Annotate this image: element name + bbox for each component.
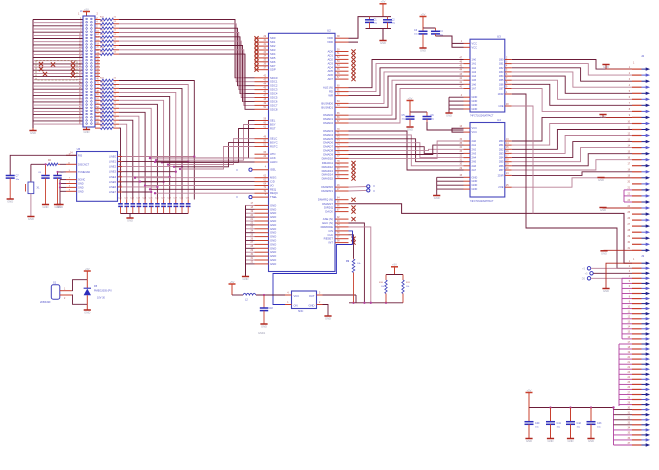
svg-text:=: = xyxy=(373,185,375,189)
connector J3 pin 10 xyxy=(627,306,650,310)
wire bus S2-4 xyxy=(349,147,464,154)
U2 left pin ISEL xyxy=(236,167,277,173)
wire S1 pin2 to diode xyxy=(72,295,88,304)
wire pullup rail xyxy=(349,302,403,304)
wire J1 left pin row 14 xyxy=(33,58,83,61)
svg-text:36: 36 xyxy=(459,139,462,141)
svg-text:22: 22 xyxy=(114,25,117,27)
wire 2DIR to J2 xyxy=(512,172,632,176)
svg-text:22: 22 xyxy=(114,17,117,19)
J3 power fan upper xyxy=(619,344,632,406)
svg-text:10u: 10u xyxy=(392,23,396,25)
wire LINE0 xyxy=(119,155,196,157)
wire control net 5 xyxy=(179,147,255,171)
svg-text:GND: GND xyxy=(472,175,478,179)
svg-text:22: 22 xyxy=(114,117,117,119)
svg-text:1A0: 1A0 xyxy=(472,58,477,62)
svg-text:GND: GND xyxy=(526,439,532,443)
wire bus S2-7 xyxy=(349,141,464,158)
svg-text:10u: 10u xyxy=(577,427,581,429)
svg-text:GND1: GND1 xyxy=(258,331,266,335)
wire R1-3 xyxy=(512,72,632,87)
wire control net 0 xyxy=(149,121,255,160)
connector J2 label xyxy=(633,54,645,65)
svg-text:GND: GND xyxy=(127,219,133,223)
power +5V mid caps xyxy=(407,96,414,112)
resistor RP1-3 xyxy=(95,25,119,29)
svg-text:74FCT162245ATPACT: 74FCT162245ATPACT xyxy=(470,200,494,203)
svg-text:BUSMD1: BUSMD1 xyxy=(321,105,333,109)
ground J2 pin 1 xyxy=(602,65,632,70)
wire SDC1 xyxy=(119,24,255,82)
svg-text:C31: C31 xyxy=(186,198,191,200)
wire VDD to caps xyxy=(349,17,366,42)
svg-text:R29: R29 xyxy=(100,110,105,112)
resistor RP1-4 xyxy=(95,30,119,34)
wire R1-1 xyxy=(512,64,632,76)
svg-text:RSTC: RSTC xyxy=(270,145,278,149)
connector J3 pin 25 xyxy=(627,382,650,386)
svg-text:GND: GND xyxy=(600,208,606,212)
svg-text:C6: C6 xyxy=(431,114,435,117)
svg-text:18: 18 xyxy=(627,347,630,349)
svg-text:22: 22 xyxy=(114,125,117,127)
terminal circle D5 xyxy=(582,277,632,281)
svg-text:42: 42 xyxy=(459,78,462,80)
svg-text:GND: GND xyxy=(603,65,609,69)
capacitor CB3 xyxy=(566,408,582,444)
svg-text:1B0: 1B0 xyxy=(499,58,504,62)
ground U2 gnd pins xyxy=(242,277,249,282)
connector J3 pin 37 xyxy=(627,443,650,447)
svg-text:12: 12 xyxy=(627,317,630,319)
svg-text:20: 20 xyxy=(627,182,630,184)
svg-text:2: 2 xyxy=(629,266,631,268)
svg-text:1A4: 1A4 xyxy=(472,74,477,78)
svg-text:TSEL: TSEL xyxy=(270,195,277,199)
resistor RP2-7 xyxy=(95,102,119,106)
wire R2-2 xyxy=(512,130,632,150)
svg-text:33: 33 xyxy=(459,151,462,153)
connector J3 label xyxy=(633,254,645,261)
svg-text:13: 13 xyxy=(627,322,630,324)
wire DMAPR0 to terminal circle xyxy=(349,186,367,189)
svg-text:GND: GND xyxy=(420,49,426,53)
svg-text:VCC: VCC xyxy=(472,130,478,134)
connector J3 pin 15 xyxy=(627,332,650,336)
wire R2-0 xyxy=(512,117,632,141)
wire cap2 rail xyxy=(423,27,436,29)
svg-text:31: 31 xyxy=(627,248,630,250)
resistor RP1-9 xyxy=(95,51,119,55)
svg-text:VCC: VCC xyxy=(472,45,478,49)
svg-text:+5V: +5V xyxy=(527,388,532,392)
wire R2-4 xyxy=(512,142,632,158)
U2 right pins ALE RD WR BUSMD xyxy=(321,86,348,126)
svg-text:1B4: 1B4 xyxy=(499,74,504,78)
wire U4 gnd bus xyxy=(437,177,464,195)
connector J3 pin 12 xyxy=(627,317,650,321)
wire REQ net xyxy=(149,188,255,190)
svg-text:GND: GND xyxy=(270,262,276,266)
svg-text:86: 86 xyxy=(337,205,340,207)
svg-text:=: = xyxy=(236,196,238,200)
resistor RP1-1 xyxy=(95,17,119,21)
svg-text:+5: +5 xyxy=(585,273,588,276)
svg-text:10k: 10k xyxy=(406,286,409,288)
svg-text:+5V: +5V xyxy=(421,12,426,16)
U2 left GND pins xyxy=(246,203,277,266)
svg-text:2: 2 xyxy=(64,298,66,300)
svg-text:4: 4 xyxy=(506,66,508,68)
connector J3 pin 32 xyxy=(627,418,650,422)
U2 left pins SD0-SDP xyxy=(254,36,275,72)
svg-text:C41: C41 xyxy=(557,422,562,425)
connector J2 pin 2 xyxy=(629,73,650,77)
ground C8 xyxy=(42,205,49,210)
connector J3 pin 4 xyxy=(629,276,650,280)
svg-text:2B1: 2B1 xyxy=(499,143,504,147)
wire bus S1-4 xyxy=(349,76,464,107)
svg-text:R2: R2 xyxy=(48,160,52,162)
capacitor CB2 xyxy=(546,408,562,444)
wire J1 left pin row 6 xyxy=(33,33,83,36)
svg-text:10u: 10u xyxy=(431,119,435,121)
wire J1 left pin row 24 xyxy=(33,90,83,93)
wire RP2 net 1 xyxy=(119,85,188,200)
svg-text:30: 30 xyxy=(627,407,630,409)
connector J2 pin 27 xyxy=(627,224,650,228)
wire R1-0 xyxy=(512,60,632,70)
svg-text:17: 17 xyxy=(250,203,253,205)
svg-text:GND: GND xyxy=(78,186,84,189)
svg-text:22: 22 xyxy=(114,34,117,36)
wire REQC net xyxy=(154,192,255,194)
wire U3 gnd bus xyxy=(449,97,464,112)
svg-text:40: 40 xyxy=(459,86,462,88)
wire J1 left pin row 15 xyxy=(33,62,83,65)
svg-text:36: 36 xyxy=(263,64,266,66)
power +5V pullups xyxy=(391,263,398,275)
svg-text:14: 14 xyxy=(627,145,630,147)
wire R1-2 xyxy=(512,68,632,81)
svg-text:ON: ON xyxy=(294,303,298,307)
wire J1 left pin row 25 xyxy=(33,93,83,96)
resistor RP2-2 xyxy=(95,82,119,86)
connector J3 pin 8 xyxy=(629,296,650,300)
svg-text:R30: R30 xyxy=(100,113,105,115)
svg-text:2B2: 2B2 xyxy=(499,147,504,151)
wire J1 left pin row 10 xyxy=(33,46,83,49)
connector J2 pin 15 xyxy=(627,152,650,156)
wire control net 1 xyxy=(155,125,255,162)
svg-text:4: 4 xyxy=(629,85,631,87)
svg-text:R14: R14 xyxy=(100,30,105,32)
svg-text:1: 1 xyxy=(287,302,289,304)
svg-text:22: 22 xyxy=(250,223,253,225)
svg-text:GND: GND xyxy=(568,439,574,443)
ground J2 pin 19 xyxy=(597,178,632,183)
svg-text:DMAD15: DMAD15 xyxy=(322,177,334,181)
svg-text:=: = xyxy=(373,189,375,193)
svg-text:R16: R16 xyxy=(100,38,105,40)
svg-text:11: 11 xyxy=(628,127,631,129)
J1 right pin numbers xyxy=(96,17,99,125)
svg-text:GND: GND xyxy=(601,251,607,255)
ground U6 xyxy=(56,205,63,210)
svg-text:DMAD10: DMAD10 xyxy=(322,156,334,160)
no-connect X mark xyxy=(51,62,55,66)
svg-text:GND: GND xyxy=(43,205,49,209)
svg-text:74FCT162245ATPACT: 74FCT162245ATPACT xyxy=(470,115,494,118)
capacitor C9 xyxy=(53,172,64,204)
svg-text:22: 22 xyxy=(114,110,117,112)
wire J1 left pin row 16 xyxy=(33,65,83,68)
U2 right pins AD0-AD7 xyxy=(328,49,356,81)
svg-text:2A5: 2A5 xyxy=(472,160,477,164)
svg-text:2: 2 xyxy=(629,73,631,75)
svg-text:GND: GND xyxy=(472,103,478,107)
ic U4 buffer xyxy=(470,118,505,203)
wire RP2 net 4 xyxy=(119,96,170,199)
svg-text:22: 22 xyxy=(114,82,117,84)
ground U4 xyxy=(433,196,440,201)
wire U6 gnd merge xyxy=(59,180,66,204)
svg-text:1OE: 1OE xyxy=(498,104,503,108)
wire J1 left pin row 28 xyxy=(33,103,83,106)
wire L2 to VCC xyxy=(256,294,285,296)
svg-text:C2: C2 xyxy=(392,19,396,22)
svg-text:ISEL: ISEL xyxy=(270,168,277,172)
svg-text:1: 1 xyxy=(633,62,635,65)
resistor RP1-8 xyxy=(95,47,119,51)
svg-text:C7: C7 xyxy=(16,175,20,178)
wire bus S2-3 xyxy=(349,143,464,158)
wire J1 left pin row 13 xyxy=(33,55,83,58)
capacitor C5 xyxy=(402,112,415,124)
wire bus S1-5 xyxy=(349,80,464,115)
svg-text:GND: GND xyxy=(472,99,478,103)
connector J2 pin 30 xyxy=(627,242,650,246)
svg-text:LINE1: LINE1 xyxy=(109,161,117,164)
svg-text:C28: C28 xyxy=(167,198,172,200)
svg-text:R15: R15 xyxy=(100,34,105,36)
svg-text:1DIR: 1DIR xyxy=(498,92,504,96)
wire LINE3 xyxy=(119,171,177,173)
ground top caps xyxy=(379,41,386,46)
wire cap rail top xyxy=(366,16,392,18)
wire J1 left pin row 7 xyxy=(33,36,83,39)
wire to crystal xyxy=(30,164,32,181)
svg-text:49: 49 xyxy=(263,103,266,105)
wire J1 left pin row 18 xyxy=(33,71,83,74)
wire J1 left pin row 32 xyxy=(33,115,83,118)
svg-text:24: 24 xyxy=(627,377,630,379)
wire C/D net xyxy=(139,180,255,182)
svg-text:22: 22 xyxy=(114,106,117,108)
J3 magenta elbows xyxy=(622,278,632,339)
connector J3 pin 11 xyxy=(628,312,650,316)
svg-text:31: 31 xyxy=(627,413,630,415)
wire DISCNCT net xyxy=(31,163,66,165)
svg-text:SDC8: SDC8 xyxy=(270,107,278,111)
svg-text:37: 37 xyxy=(627,443,630,445)
svg-text:GND: GND xyxy=(78,183,84,186)
svg-text:2B7: 2B7 xyxy=(499,168,504,172)
svg-text:35: 35 xyxy=(459,143,462,145)
svg-text:16: 16 xyxy=(627,158,630,160)
ground J2 pin 9 xyxy=(599,115,632,120)
connector J2 pin 7 xyxy=(629,103,650,107)
wire RIS net xyxy=(10,155,76,175)
resistor RP2-13 xyxy=(95,125,119,129)
svg-text:16: 16 xyxy=(337,185,340,187)
wire R2-1 xyxy=(512,124,632,146)
connector J3 pin 9 xyxy=(629,301,650,305)
ic S1 switch xyxy=(40,281,60,305)
svg-text:VCC: VCC xyxy=(472,41,478,45)
wire TCMEVAD net xyxy=(57,171,67,175)
connector J2 pin 12 xyxy=(627,133,650,137)
svg-text:17: 17 xyxy=(627,342,630,344)
svg-text:+5V: +5V xyxy=(84,7,89,11)
svg-text:R32: R32 xyxy=(100,121,105,123)
connector J2 pin 10 xyxy=(627,121,650,125)
no-connect X mark xyxy=(71,73,75,77)
svg-text:23: 23 xyxy=(627,200,630,202)
svg-text:22: 22 xyxy=(114,98,117,100)
svg-text:22: 22 xyxy=(114,86,117,88)
svg-text:50: 50 xyxy=(263,107,266,109)
svg-text:2A2: 2A2 xyxy=(472,147,477,151)
U2 right pins ASE EHC DRMODE CS CLK RESET INT xyxy=(321,217,356,245)
wire 2OE to J2 xyxy=(512,178,632,187)
wire CS blue net to regulator ON xyxy=(273,231,353,305)
wire RP2 net 10 xyxy=(119,120,133,199)
svg-text:GND: GND xyxy=(548,439,554,443)
U2 right pins DMAPR0 DMAPR1 xyxy=(321,185,348,193)
svg-text:25: 25 xyxy=(250,234,253,236)
svg-text:TCMEVAD: TCMEVAD xyxy=(78,171,90,174)
svg-text:ALRC: ALRC xyxy=(270,160,277,164)
svg-text:8: 8 xyxy=(629,296,631,298)
connector J3 pin 26 xyxy=(627,387,650,391)
svg-text:GND: GND xyxy=(243,277,249,281)
svg-text:C22: C22 xyxy=(130,198,135,200)
wire LINE4 xyxy=(119,176,171,178)
svg-text:19: 19 xyxy=(250,211,253,213)
svg-text:GND: GND xyxy=(325,317,331,321)
svg-text:C24: C24 xyxy=(143,198,148,200)
wire RP2 net 7 xyxy=(119,108,151,199)
wire DMAINT to right connector xyxy=(349,204,633,263)
svg-text:R22: R22 xyxy=(100,82,105,84)
svg-text:4: 4 xyxy=(461,95,463,97)
svg-text:GND: GND xyxy=(84,130,90,134)
wire SDC3 xyxy=(119,33,255,90)
capacitor C6 xyxy=(423,112,435,122)
wire J1 left pin row 4 xyxy=(33,27,83,30)
svg-text:1B2: 1B2 xyxy=(499,66,504,70)
svg-text:22: 22 xyxy=(114,90,117,92)
U6 pins right xyxy=(118,155,123,193)
wire J1 left pin row 11 xyxy=(33,49,83,52)
resistor RP2-11 xyxy=(95,117,119,121)
connector J2 pin 25 xyxy=(627,212,650,216)
svg-text:C43: C43 xyxy=(597,422,602,425)
wire SDC0 xyxy=(119,20,255,78)
wire J1 left pin row 31 xyxy=(33,112,83,115)
svg-text:31: 31 xyxy=(250,258,253,260)
svg-text:22: 22 xyxy=(114,78,117,80)
svg-text:22: 22 xyxy=(114,102,117,104)
svg-text:19: 19 xyxy=(627,176,630,178)
terminal circle +5 A xyxy=(582,267,632,271)
ground C18 xyxy=(260,324,267,329)
svg-text:14: 14 xyxy=(70,153,73,155)
U2 left pins SDC0-SDC8 xyxy=(255,76,278,112)
svg-text:5: 5 xyxy=(265,194,267,196)
svg-text:OUT: OUT xyxy=(309,294,315,298)
wire control net 4 xyxy=(173,143,255,168)
U2 right pins DMAD11-15 xyxy=(322,161,356,181)
wire cap ground rail xyxy=(121,214,189,218)
ground C9 xyxy=(54,205,61,210)
svg-text:47: 47 xyxy=(459,57,462,59)
resistor RP2-8 xyxy=(95,106,119,110)
svg-text:5: 5 xyxy=(319,293,321,295)
resistor RP2-12 xyxy=(95,121,119,125)
wire J1 left pin row 5 xyxy=(33,30,83,33)
svg-text:GND: GND xyxy=(472,183,478,187)
svg-text:45: 45 xyxy=(459,66,462,68)
svg-text:DISCNCT: DISCNCT xyxy=(78,163,90,166)
svg-text:14: 14 xyxy=(627,327,630,329)
wire SDC7 xyxy=(119,50,255,106)
wire SDC4 xyxy=(119,37,255,94)
connector J3 pin 22 xyxy=(627,367,650,371)
svg-text:9: 9 xyxy=(629,301,631,303)
svg-text:25: 25 xyxy=(627,212,630,214)
wire RP2 net 11 xyxy=(119,124,127,199)
svg-text:2B6: 2B6 xyxy=(499,164,504,168)
wire cap bank rail xyxy=(529,406,615,408)
svg-text:17: 17 xyxy=(627,164,630,166)
wire RP2 net 0 xyxy=(119,81,194,200)
svg-text:R26: R26 xyxy=(100,98,105,100)
svg-text:28: 28 xyxy=(627,230,630,232)
connector J3 pin 35 xyxy=(627,433,650,437)
svg-text:15: 15 xyxy=(627,152,630,154)
svg-text:GND: GND xyxy=(84,311,90,315)
capacitor C18 xyxy=(260,295,274,324)
wire bus S1-2 xyxy=(349,68,464,96)
U2 right pins DMARQ group xyxy=(318,198,356,214)
wire J1 left pin row 33 xyxy=(33,119,83,122)
terminal circle +5 B xyxy=(585,272,632,276)
svg-text:25: 25 xyxy=(627,382,630,384)
svg-text:22: 22 xyxy=(114,113,117,115)
capacitor row C20-C31 xyxy=(118,198,191,214)
no-connect dashed box xyxy=(36,61,77,81)
svg-text:GND: GND xyxy=(588,439,594,443)
svg-text:2OE: 2OE xyxy=(498,185,503,189)
wire LINE5 xyxy=(119,181,165,183)
wire OUT net xyxy=(323,295,357,303)
U5 pins xyxy=(285,295,323,305)
svg-text:1A6: 1A6 xyxy=(472,82,477,86)
wire J1 left pin row 1 xyxy=(33,17,83,20)
